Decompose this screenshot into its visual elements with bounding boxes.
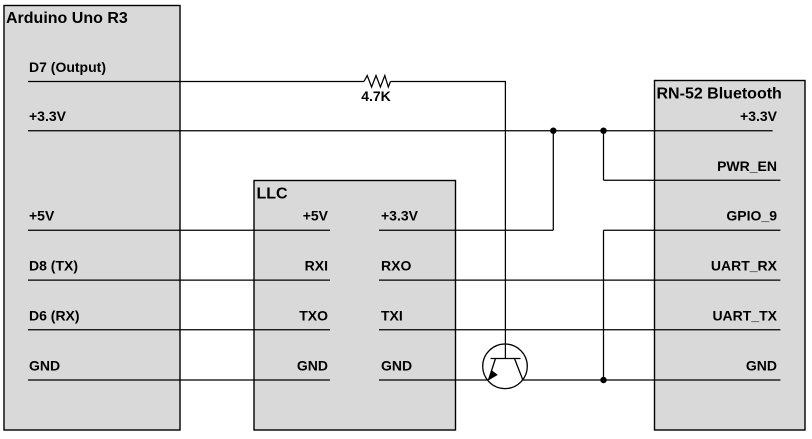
svg-text:GND: GND bbox=[297, 358, 328, 374]
svg-text:D6 (RX): D6 (RX) bbox=[29, 307, 80, 323]
wire GPIO_9 stub bbox=[604, 229, 781, 231]
svg-text:+5V: +5V bbox=[303, 208, 329, 224]
svg-text:D8 (TX): D8 (TX) bbox=[29, 258, 78, 274]
wire riser LLC +3.3V up to bus bbox=[552, 131, 554, 231]
wire LLC TXI to RN-52 UART_TX bbox=[379, 329, 780, 331]
svg-text:+3.3V: +3.3V bbox=[29, 108, 67, 124]
junction node GND / GPIO_9 drop bbox=[600, 377, 606, 383]
svg-text:+5V: +5V bbox=[29, 208, 55, 224]
svg-text:GPIO_9: GPIO_9 bbox=[726, 208, 777, 224]
svg-text:Arduino Uno R3: Arduino Uno R3 bbox=[6, 10, 128, 27]
wire Arduino D6 to LLC TXO bbox=[28, 329, 330, 331]
svg-text:4.7K: 4.7K bbox=[361, 88, 391, 104]
wire resistor to transistor base corner bbox=[391, 82, 506, 359]
wire GPIO_9 drop to GND node bbox=[603, 230, 605, 380]
transistor Q1 bbox=[483, 344, 528, 389]
wire transistor collector to RN-52 GND bbox=[523, 379, 781, 381]
svg-text:RXI: RXI bbox=[305, 258, 328, 274]
svg-text:+3.3V: +3.3V bbox=[381, 208, 419, 224]
wire PWR_EN stub bbox=[604, 179, 781, 181]
junction node +3.3V / PWR_EN riser bbox=[600, 128, 606, 134]
svg-text:GND: GND bbox=[746, 358, 777, 374]
wire Arduino D8 to LLC RXI bbox=[28, 279, 330, 281]
wire LLC RXO to RN-52 UART_RX bbox=[379, 279, 780, 281]
svg-text:UART_RX: UART_RX bbox=[711, 258, 778, 274]
wire LLC GND to transistor emitter bbox=[379, 379, 489, 381]
svg-text:RXO: RXO bbox=[381, 258, 411, 274]
wire D7 to resistor bbox=[28, 81, 364, 83]
svg-text:GND: GND bbox=[29, 358, 60, 374]
svg-text:UART_TX: UART_TX bbox=[712, 307, 777, 323]
wire +3.3V bus Arduino to RN-52 bbox=[28, 130, 773, 132]
svg-text:D7 (Output): D7 (Output) bbox=[29, 59, 106, 75]
wire Arduino GND to LLC GND bbox=[28, 379, 330, 381]
svg-text:LLC: LLC bbox=[257, 185, 289, 202]
svg-text:+3.3V: +3.3V bbox=[740, 108, 778, 124]
svg-text:TXI: TXI bbox=[381, 307, 403, 323]
wire LLC +3.3V to riser bbox=[379, 229, 553, 231]
IC U2 LLC logic level converter bbox=[254, 181, 456, 431]
junction node +3.3V / LLC riser bbox=[550, 128, 556, 134]
resistor R1 4.7K zigzag bbox=[364, 76, 391, 88]
IC U3 RN-52 Bluetooth module bbox=[655, 81, 806, 431]
wire Arduino +5V to LLC +5V bbox=[28, 229, 330, 231]
IC U1 Arduino Uno R3 bbox=[4, 6, 180, 431]
svg-text:GND: GND bbox=[381, 358, 412, 374]
svg-text:RN-52 Bluetooth: RN-52 Bluetooth bbox=[657, 85, 782, 102]
wire riser PWR_EN up to bus bbox=[603, 131, 605, 181]
svg-text:TXO: TXO bbox=[299, 307, 328, 323]
svg-text:PWR_EN: PWR_EN bbox=[717, 158, 777, 174]
